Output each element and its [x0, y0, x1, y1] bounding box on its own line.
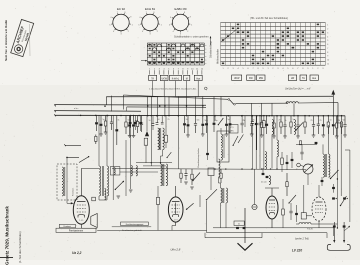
wire pot down: [307, 174, 309, 185]
cap x291 near V3: [289, 210, 292, 212]
svg-text:1: 1: [267, 68, 268, 70]
svg-text:6: 6: [170, 17, 171, 19]
wire x99 up: [98, 115, 100, 166]
wire x272 down: [271, 135, 273, 169]
IF transformer A secondary coil: [163, 128, 165, 150]
right grid diagonal pointer: [222, 30, 237, 42]
svg-text:5n: 5n: [238, 223, 240, 225]
svg-text:(weiter 2.Teil): (weiter 2.Teil): [295, 237, 309, 240]
junction on bus G x272: [271, 115, 273, 117]
junction on link line x277: [276, 168, 277, 169]
tube V2 grid dashes: [172, 204, 180, 206]
cluster dark cap x287: [286, 162, 289, 164]
junction on rail C x202.8: [202, 105, 203, 106]
junction on bus G x206.5: [206, 115, 208, 117]
junction at x164.9: [164, 115, 166, 117]
resistor string at x261.7: [261, 116, 263, 123]
tiny value labels row: [103, 119, 346, 123]
svg-text:ECH 81: ECH 81: [145, 7, 156, 11]
svg-text:5: 5: [138, 24, 139, 26]
svg-text:MHz: MHz: [230, 131, 234, 133]
box riser wire x175.5: [175, 81, 177, 97]
coil x277 mid: [277, 140, 278, 157]
resistor string at x274: [273, 116, 275, 123]
band coil B1: [221, 134, 222, 148]
tube V3 top lead: [271, 188, 273, 196]
capacitor string at x111.5: [111, 116, 113, 122]
selector box TA: [300, 75, 307, 80]
vertical x178: [177, 116, 179, 169]
electrolytic capacitor string at x266.7: [266, 116, 268, 124]
svg-text:25: 25: [279, 120, 281, 122]
feeder wire x202.8: [202, 96, 204, 115]
svg-text:Schalterstellung: Schalterstellung: [210, 41, 213, 58]
IF transformer A primary coil: [158, 128, 160, 150]
svg-text:25: 25: [311, 120, 313, 122]
long vertical x337: [336, 116, 338, 228]
junction on rail C x147.7: [147, 105, 148, 106]
junction at x309.2: [308, 115, 310, 117]
speaker lead 1: [333, 229, 335, 241]
svg-text:Ua 2,2: Ua 2,2: [72, 251, 82, 255]
pot arrow: [304, 165, 313, 173]
svg-text:M: M: [186, 78, 188, 80]
switch S2b diagonal under bus: [218, 118, 223, 125]
tube V4 bottom lead: [318, 221, 320, 228]
coil feed vertical a: [322, 144, 324, 154]
electrolytic capacitor string at x133.5: [133, 116, 135, 125]
svg-text:5p: 5p: [228, 119, 230, 121]
feeder wire x195.5: [195, 96, 197, 115]
switch S4b diagonal: [207, 189, 218, 200]
input link line 1: [65, 144, 81, 146]
dark fcap on rail x244: [243, 227, 246, 229]
svg-text:87,5: 87,5: [230, 127, 234, 129]
supply rail C: [55, 104, 206, 107]
svg-text:5: 5: [327, 40, 328, 42]
svg-text:a: a: [205, 63, 206, 65]
svg-text:1: 1: [161, 24, 162, 26]
fcap right lower a: [332, 197, 335, 199]
scan smudge areas: [0, 85, 360, 260]
push-button box TA: [149, 75, 157, 80]
junction at x147.7: [147, 115, 149, 117]
fcap x256 string: [255, 123, 258, 125]
svg-text:Drucktasten gedrückt: Drucktasten gedrückt: [122, 229, 142, 232]
electrolytic capacitor string at x184.5: [184, 116, 186, 124]
supply rail D: [55, 110, 141, 113]
junction at x261.7: [261, 115, 263, 117]
svg-text:TA: TA: [151, 77, 154, 80]
electrolytic capacitor string at x101: [100, 116, 102, 124]
variable arrow on elco: [345, 227, 350, 231]
ground at x192: [190, 186, 194, 188]
junction at x186.5: [186, 115, 188, 117]
svg-text:8: 8: [184, 12, 185, 14]
left rail end ticks: [54, 104, 56, 106]
feeder wire x261.7: [261, 103, 263, 116]
cap x242 top: [241, 122, 244, 124]
junction dots right lower: [337, 178, 338, 179]
diode circle: [252, 204, 257, 209]
feeder wire x151.3: [150, 96, 152, 115]
tube V4 grid dashes: [315, 205, 323, 207]
component x300 on y144: [299, 141, 301, 145]
tube V2 inner stem: [175, 203, 177, 215]
junction on rail C x186.5: [186, 105, 187, 106]
resistor string at x291: [290, 116, 292, 122]
wave switch S1 diagonal: [230, 100, 235, 105]
tube base diagram ECH 81: [138, 7, 161, 36]
tube V1 top lead: [80, 169, 82, 196]
cap x302 right mid: [300, 151, 303, 153]
crystal element right of V1: [91, 214, 97, 228]
left grid column digits: [149, 68, 204, 74]
svg-text:Ferritant.: Ferritant.: [64, 225, 72, 228]
junction at x323.3: [323, 115, 325, 117]
svg-text:TA: TA: [302, 77, 305, 80]
hcoil bottom right: [299, 223, 311, 224]
rail B right drop: [337, 103, 339, 123]
junction on bus G x195.5: [195, 115, 197, 117]
small box left of V4: [301, 213, 306, 219]
junction at x133.5: [133, 115, 135, 117]
line y144 right: [296, 143, 317, 145]
bottom rail y230.4: [97, 229, 206, 231]
junction on bus G x242.1: [241, 115, 243, 117]
feeder wire x147.7: [147, 96, 149, 115]
svg-text:50n: 50n: [197, 119, 200, 121]
upper vertical feeders group: [148, 96, 294, 116]
dark cap x135 with trim slash: [134, 122, 137, 124]
IF transformer B primary coil: [161, 164, 163, 186]
junction at x178.4: [178, 115, 180, 117]
tube V1 grid dashes: [77, 204, 86, 206]
bracket corner x333: [333, 228, 335, 236]
svg-text:3: 3: [322, 68, 323, 70]
resistor box x211 mid: [208, 168, 214, 176]
ground at x188: [186, 134, 190, 136]
cap x252 string: [251, 121, 254, 123]
ground at x274: [272, 135, 276, 137]
extra G dots at feeders: [151, 115, 343, 117]
svg-text:1. Drucktaste TA 2. Drucktast: 1. Drucktaste TA 2. Drucktaste UKW 3. Dr…: [149, 87, 196, 90]
archive stamp ARCHIEF NVHR: [11, 19, 34, 56]
small value box x233: [229, 125, 238, 134]
svg-text:a: a: [205, 48, 206, 50]
svg-text:5: 5: [109, 24, 110, 26]
junction on link line x242: [241, 168, 242, 169]
wire x350 top hook: [345, 149, 350, 151]
push-button box UKW: [160, 75, 168, 80]
junction on link line x252: [251, 168, 252, 169]
resistor x283 near V3: [282, 209, 285, 215]
rail y162.7 segment: [136, 162, 172, 164]
junction on link line x225.8: [225, 168, 226, 169]
dark cap x267: [266, 176, 269, 178]
junction at x269.2: [268, 115, 270, 117]
resistor x192 mid: [191, 169, 193, 174]
IF transformer B secondary coil: [166, 164, 168, 186]
right coil pair A: [323, 154, 324, 177]
svg-text:41 a10: 41 a10: [261, 182, 267, 184]
switch S3a diagonal: [167, 152, 171, 157]
volume pot circle: [303, 164, 313, 174]
tube V1 cathode: [78, 214, 85, 217]
svg-text:Graetz 7029, Musikschrank: Graetz 7029, Musikschrank: [5, 206, 10, 265]
svg-text:1: 1: [222, 68, 223, 70]
band coil B2: [221, 149, 222, 160]
electrolytic capacitor string at x214: [213, 116, 215, 123]
input link line 2: [67, 156, 79, 158]
resistor string at x305: [304, 116, 306, 122]
ground at x313.5: [312, 134, 316, 136]
junction on bus G x328.3: [328, 115, 330, 117]
selector box MW: [257, 75, 265, 80]
M2 cores: [222, 188, 224, 203]
V3 top link wire: [265, 187, 279, 189]
tube V1 grid arrow: [71, 202, 74, 204]
bus wire L2 upper: [123, 95, 228, 99]
switch S0 diagonal: [79, 157, 89, 163]
feeder wire x157.6: [157, 96, 159, 115]
svg-text:2: 2: [327, 29, 328, 31]
junction on bus G x305: [304, 115, 306, 117]
caption end mark: [205, 87, 208, 90]
wire x277 segs: [276, 116, 278, 140]
M2 coil pair secondary: [226, 188, 228, 203]
svg-text:6: 6: [111, 17, 112, 19]
tube V2 anode bar: [172, 201, 180, 203]
svg-text:9: 9: [307, 68, 308, 70]
left grid pointer arrow: [141, 60, 147, 62]
resistor string at x126: [125, 116, 127, 122]
junction at x241.7: [241, 115, 243, 117]
svg-text:UKW: UKW: [234, 78, 240, 80]
svg-text:Drucktastenaggregat: Drucktastenaggregat: [126, 223, 144, 226]
junction at x159.7: [159, 105, 161, 107]
tube base diagram EABC 80: [169, 7, 192, 36]
junction on link line x270.5: [270, 168, 271, 169]
svg-text:Ned. Ver. v. Historie v.d. Rad: Ned. Ver. v. Historie v.d. Radio: [4, 20, 8, 61]
electrolytic capacitor string at x116.8: [116, 116, 118, 130]
bracket corner x327: [326, 233, 328, 238]
resistor string at x336.7: [336, 116, 338, 123]
coil column x265: [265, 152, 267, 170]
fcap x296 near V3: [295, 213, 298, 215]
switch S7 right lower: [341, 196, 347, 206]
push-button box K+M+L: [170, 75, 182, 80]
AM rail B continued: [298, 102, 338, 104]
electrolytic capacitor string at x230: [229, 116, 231, 124]
svg-text:7: 7: [297, 68, 298, 70]
supply rail C2: [127, 106, 206, 108]
switch right of V2: [187, 203, 194, 209]
svg-text:Wellenschalter: Wellenschalter: [217, 49, 220, 64]
junction at x107: [106, 115, 108, 117]
vertical x151: [150, 116, 152, 166]
junction at x95.8: [95, 115, 97, 117]
resistor x181 mid: [180, 169, 182, 173]
input link tick: [64, 144, 66, 146]
tube V4 envelope dashed: [312, 197, 326, 221]
right grid row labels: [327, 25, 329, 66]
svg-text:8: 8: [153, 12, 154, 14]
ferrite antenna dashed box: [57, 164, 77, 200]
link line y168.5 left: [112, 168, 205, 171]
extra trimmer x162: [161, 121, 164, 123]
svg-text:3: 3: [327, 32, 328, 34]
selector box UKW: [232, 75, 242, 80]
coil feed vertical b: [328, 125, 330, 154]
feeder wire x221: [220, 96, 222, 115]
wire x221 top: [220, 128, 222, 134]
tube V1 anode bar: [77, 201, 86, 203]
svg-text:(1.Teil des Schaltbildes): (1.Teil des Schaltbildes): [18, 231, 22, 263]
resistor string at x281: [280, 116, 282, 122]
M2 coil pair primary: [221, 188, 223, 203]
feeder wire x214: [213, 96, 215, 115]
rail y165.9 segment: [143, 165, 166, 167]
junction at x318.3: [318, 115, 320, 117]
long vertical x341: [340, 123, 342, 196]
junction on bus G x221: [220, 115, 222, 117]
up arrow mark: [210, 37, 212, 46]
svg-text:1k: 1k: [285, 120, 287, 122]
M2 wires down: [220, 203, 222, 228]
junction on bus G x298: [297, 115, 299, 117]
svg-text:Schaltkontakte v. unten gesehe: Schaltkontakte v. unten gesehen: [174, 36, 209, 39]
resistor x264 string: [263, 121, 266, 128]
trimmer slash mark: [133, 120, 138, 127]
svg-text:1: 1: [132, 24, 133, 26]
cap x186 mid: [185, 169, 187, 174]
dark cap x333 below: [332, 187, 335, 189]
ground at x118.3: [117, 195, 121, 197]
junction on link line x261.7: [261, 168, 262, 169]
extra trimmer x153: [152, 123, 155, 125]
feeder wire x272: [271, 103, 273, 116]
long vertical x113: [112, 116, 114, 201]
ground at x129.6: [128, 135, 132, 137]
svg-text:Ufm 2,8: Ufm 2,8: [171, 247, 181, 251]
junction on bus G x281: [280, 115, 282, 117]
svg-text:4: 4: [327, 36, 328, 38]
electrolytic capacitor string at x96.5: [96, 116, 98, 123]
wire string at x256.7: [256, 116, 258, 150]
main bus G: [55, 114, 345, 117]
svg-text:5p: 5p: [103, 119, 105, 121]
svg-text:4: 4: [142, 31, 143, 33]
coil pair lower left b: [131, 166, 132, 176]
svg-text:2: 2: [157, 31, 158, 33]
svg-text:EC 92: EC 92: [117, 7, 125, 11]
svg-text:9: 9: [190, 17, 191, 19]
resistor x166 mid: [164, 135, 167, 142]
electrolytic capacitor string at x226.5: [226, 116, 228, 124]
faint vertical crease line: [29, 24, 32, 56]
bus wire L1: [106, 95, 333, 98]
electrolytic capacitor string at x206.5: [206, 116, 208, 124]
wire x245 upper: [244, 116, 246, 127]
dark cap x322 below: [321, 180, 324, 182]
svg-text:4: 4: [237, 68, 238, 70]
wire V1 to rail: [81, 227, 97, 229]
tube V3 grid dashes: [269, 203, 275, 205]
push-button box Aus: [194, 75, 202, 80]
wave-band switch grid: [221, 23, 326, 66]
dial lamp bracket: [327, 245, 350, 251]
selector box KW: [247, 75, 255, 80]
junction at x256.7: [256, 115, 258, 117]
tube V1 bottom lead: [80, 224, 82, 228]
antenna feed arrow: [332, 94, 334, 116]
resistor string at x105.6: [105, 116, 107, 121]
band box core: [223, 134, 225, 158]
right grid bottom digits: [222, 68, 323, 70]
svg-text:3: 3: [277, 68, 278, 70]
ground at x133.5: [132, 135, 136, 137]
ferrite antenna coil: [62, 167, 63, 196]
wire x67 down to V1 grid: [66, 157, 68, 203]
svg-text:3: 3: [149, 34, 150, 36]
right coil pair B: [329, 154, 330, 177]
svg-text:K+M+L: K+M+L: [172, 78, 180, 80]
feeder wire x186.5: [186, 96, 188, 115]
tube V2 bottom lead: [175, 222, 177, 225]
svg-text:2: 2: [227, 68, 228, 70]
svg-text:2: 2: [187, 31, 188, 33]
svg-text:EABC 80: EABC 80: [175, 7, 187, 11]
junction at x215: [214, 115, 216, 117]
link line y169 right: [205, 168, 306, 170]
cluster dark cap x292: [291, 159, 294, 161]
capacitor string at x345: [344, 116, 346, 125]
capacitor string at x285: [284, 116, 286, 125]
svg-text:2: 2: [272, 68, 273, 70]
capacitor string at x141.5: [141, 116, 143, 123]
svg-text:a: a: [205, 45, 206, 47]
vertical x206 down: [206, 201, 208, 233]
resistor under left tuning: [95, 135, 97, 137]
svg-text:a: a: [205, 59, 206, 61]
ground at x101: [99, 133, 103, 135]
small cap x157 top: [156, 122, 159, 124]
svg-text:25: 25: [168, 119, 170, 121]
svg-text:5: 5: [169, 24, 170, 26]
wire x200 short: [199, 195, 201, 207]
resistor left of V2: [156, 197, 159, 204]
capacitor string at x195.5: [195, 116, 197, 124]
capacitor string at x251.7: [251, 116, 253, 124]
fcap right lower b: [343, 197, 346, 199]
switch S6 right diagonal: [331, 170, 339, 179]
svg-text:1: 1: [327, 25, 328, 27]
wire x211: [210, 176, 212, 190]
small box right of V1 top: [92, 197, 96, 201]
ground at x261.7: [260, 134, 264, 136]
wire x254 up: [254, 169, 256, 204]
svg-text:3: 3: [232, 68, 233, 70]
dark cap x130 row: [129, 122, 132, 124]
svg-text:H 6,3V: H 6,3V: [307, 229, 314, 231]
svg-text:8: 8: [327, 52, 328, 54]
osc coil x294: [294, 120, 296, 135]
ground at x298: [296, 135, 300, 137]
bus L1 left corner drop: [105, 97, 107, 105]
junction at x333.3: [333, 115, 335, 117]
feeder wire x294: [293, 103, 295, 116]
